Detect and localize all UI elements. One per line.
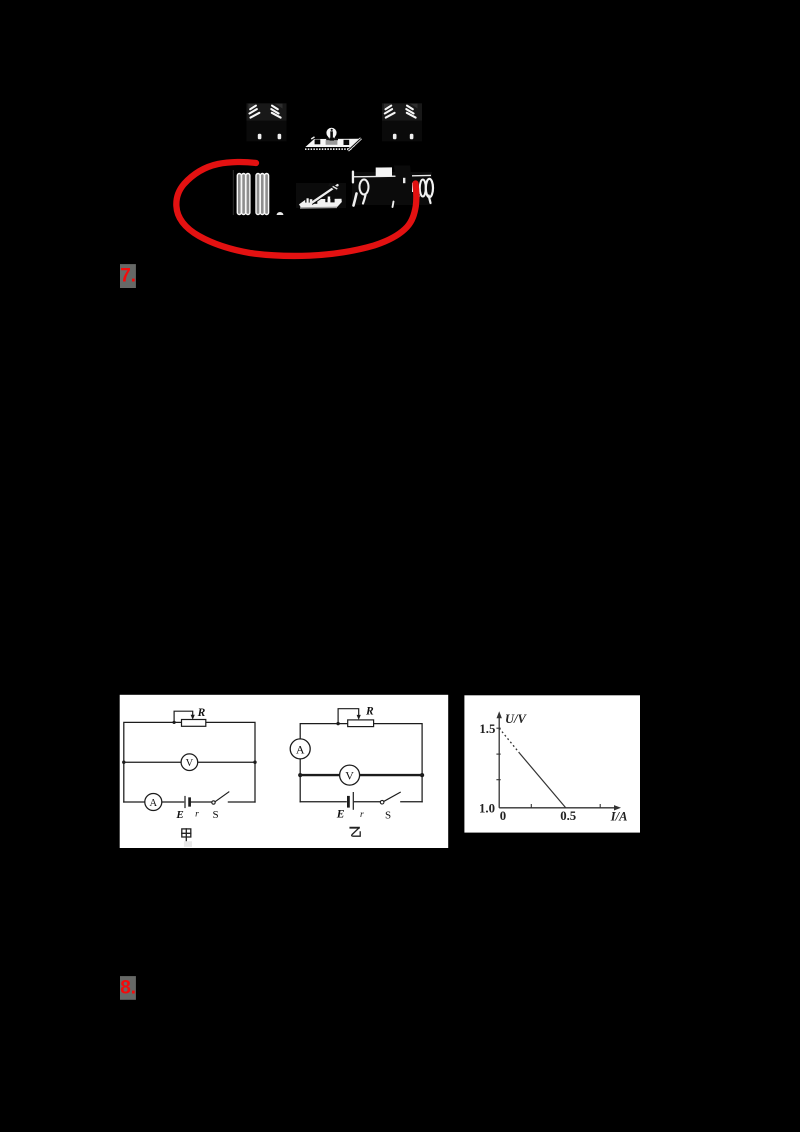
node: jia wiper tap junction — [173, 721, 176, 724]
white panel: circuit diagrams — [120, 695, 449, 848]
wire: yi switch to right — [401, 801, 422, 803]
cursor artifact under jia label — [184, 841, 192, 847]
wire: yi bottom branch left — [300, 801, 346, 803]
meter G2 body — [382, 103, 422, 121]
tick on U axis (mid 2) — [496, 779, 500, 781]
tick on U axis (mid 1) — [496, 753, 500, 755]
wire: jia wiper arm — [174, 711, 193, 722]
wire: jia battery to switch — [191, 801, 212, 803]
circuit yi — [290, 706, 424, 837]
svg-text:U/V: U/V — [505, 712, 528, 726]
meter G2 scale window arcs — [385, 106, 416, 118]
dashed extrapolation segment — [499, 728, 519, 753]
meter G2 terminals — [393, 134, 397, 140]
svg-text:A: A — [150, 798, 158, 809]
rheostat body — [352, 172, 432, 205]
svg-text:R: R — [365, 706, 374, 718]
U-I line (solid) — [519, 753, 565, 808]
label jia (Chinese) — [182, 829, 191, 841]
rheostat slider rod — [352, 175, 431, 176]
ammeter A (jia) — [145, 794, 162, 811]
tick 1.5 on U axis — [496, 727, 500, 729]
red marker stroke — [176, 162, 416, 256]
svg-text:0.5: 0.5 — [560, 809, 576, 823]
circuit jia — [122, 707, 257, 847]
node: yi wiper tap junction — [336, 722, 339, 725]
svg-text:8.: 8. — [120, 978, 136, 999]
svg-text:V: V — [186, 758, 194, 769]
node: yi V-row left junction — [298, 773, 302, 777]
knife switch base — [299, 199, 342, 208]
rheostat left end cap — [360, 180, 369, 195]
resistor R (yi rheostat) — [348, 720, 374, 727]
rheostat top highlight slab — [376, 167, 392, 176]
tick 0.25 on I axis — [530, 804, 532, 808]
meter G1 terminals — [258, 134, 262, 140]
question number 8 badge — [120, 976, 136, 1000]
lamp base plate — [305, 139, 359, 147]
voltmeter V (jia) — [181, 754, 198, 771]
rheostat left post — [352, 171, 354, 184]
I axis (horizontal) — [499, 807, 617, 809]
svg-text:R: R — [197, 707, 206, 719]
wire: jia bottom branch — [124, 801, 184, 803]
wire: yi battery to switch — [355, 801, 381, 803]
wire: jia switch to right — [228, 801, 255, 803]
switch S (jia) — [212, 801, 215, 804]
node: jia V-row left junction — [122, 761, 125, 764]
APPARATUS PHOTO GROUP — [233, 103, 433, 215]
lamp bulb — [326, 128, 336, 138]
knife switch terminals — [305, 197, 310, 203]
svg-text:0: 0 — [500, 809, 506, 823]
svg-text:r: r — [195, 810, 199, 820]
svg-text:r: r — [360, 810, 364, 820]
battery E r (jia) — [184, 797, 186, 808]
label yi (Chinese) — [350, 828, 360, 837]
svg-text:E: E — [336, 809, 345, 821]
svg-text:1.0: 1.0 — [479, 802, 495, 816]
knife switch lever — [312, 185, 338, 203]
knife switch body — [296, 183, 346, 208]
battery holder edge — [233, 170, 234, 215]
wire: yi voltmeter row (thick) — [300, 774, 422, 776]
U axis (vertical) — [498, 715, 500, 808]
rheostat slider (dark) — [394, 166, 412, 181]
svg-text:V: V — [345, 769, 354, 783]
battery cells (6 pills) — [237, 174, 268, 215]
question number 7 badge — [120, 264, 136, 288]
svg-text:A: A — [296, 742, 305, 756]
rheostat right rings — [420, 180, 426, 197]
tick 0.75 on I axis — [599, 804, 601, 808]
svg-text:S: S — [385, 810, 391, 822]
svg-text:1.5: 1.5 — [479, 722, 495, 736]
svg-text:E: E — [175, 809, 183, 821]
switch S (yi) — [380, 800, 384, 804]
rheostat legs — [354, 194, 357, 206]
lamp base front dotted edge — [305, 148, 352, 150]
wire: yi outer loop — [300, 724, 422, 802]
lamp base details — [315, 139, 321, 144]
svg-text:I/A: I/A — [610, 809, 628, 823]
svg-text:S: S — [213, 809, 219, 821]
meter G1 scale window arcs — [250, 106, 281, 118]
battery foot blob — [277, 212, 284, 215]
lamp left tick — [311, 137, 314, 139]
wire: jia voltmeter row — [124, 761, 255, 763]
node: jia V-row right junction — [253, 761, 256, 764]
wire: jia outer loop — [124, 722, 255, 802]
rheostat right terminal plate — [412, 183, 419, 192]
battery E r (yi) — [347, 797, 350, 806]
meter G1 body — [247, 103, 287, 121]
resistor R (jia rheostat) — [182, 720, 206, 727]
voltmeter V (yi) — [340, 765, 360, 785]
svg-text:7.: 7. — [120, 265, 136, 286]
node: yi V-row right junction — [420, 773, 424, 777]
lamp probe wire — [348, 138, 361, 150]
ammeter A (yi) — [290, 739, 310, 759]
wire: yi wiper arm — [338, 709, 359, 723]
red marker loop — [176, 162, 416, 256]
white panel: U-I graph — [464, 695, 640, 832]
